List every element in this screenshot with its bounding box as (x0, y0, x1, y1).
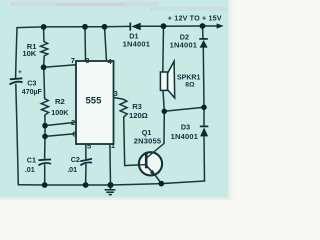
paper background (0, 0, 237, 204)
node R1 top (41, 24, 47, 30)
svg-text:120Ω: 120Ω (129, 111, 148, 120)
svg-text:.01: .01 (25, 165, 35, 174)
label SPKR1 value (177, 74, 200, 88)
label C1 value (25, 155, 36, 173)
svg-text:D3: D3 (181, 122, 190, 131)
svg-text:6: 6 (72, 130, 76, 139)
wire speaker bottom (163, 90, 164, 111)
wire pin 5 / C2 top (85, 144, 87, 159)
wire D2 anode down to node (202, 48, 205, 108)
node emitter junction (158, 181, 164, 187)
svg-text:R2: R2 (55, 97, 65, 106)
wire pin 7 (44, 65, 76, 68)
svg-text:C2: C2 (71, 155, 80, 164)
wire R3 bottom down (124, 117, 125, 166)
svg-text:3: 3 (114, 89, 118, 98)
wire D3 cathode up to node (203, 107, 205, 126)
node speaker bottom (162, 109, 168, 115)
svg-text:7: 7 (71, 56, 75, 65)
node speaker rail (161, 23, 167, 29)
svg-text:2: 2 (71, 118, 75, 127)
label C2 value (67, 155, 80, 174)
wire collector (163, 111, 165, 143)
label R2 value (51, 97, 69, 117)
node C1 bottom (42, 182, 48, 188)
supply arrow (217, 23, 224, 28)
svg-text:1N4001: 1N4001 (123, 40, 150, 49)
wire pin 2 (45, 122, 76, 125)
svg-text:100K: 100K (51, 108, 69, 117)
resistor R2 (41, 99, 48, 115)
node D3 top (201, 105, 207, 111)
label C3 value (22, 78, 43, 96)
wire left rail lower (16, 84, 18, 184)
transistor Q1 (139, 144, 164, 177)
wire pin 8 (84, 27, 87, 61)
capacitor C2 (80, 159, 92, 166)
label Q1 value (134, 128, 161, 145)
svg-text:10K: 10K (22, 49, 36, 58)
svg-text:C3: C3 (27, 78, 36, 87)
svg-text:8Ω: 8Ω (185, 82, 195, 89)
diode D1 (130, 23, 140, 31)
resistor R3 (120, 99, 127, 117)
node ground junction (108, 182, 114, 188)
wire R1 top (43, 27, 45, 42)
speaker SPKR1 (160, 61, 174, 98)
wire top rail right of D1 (141, 25, 218, 27)
label D3 value (171, 122, 198, 141)
wire pin 4 (105, 27, 107, 61)
wire left rail (16, 28, 17, 78)
wire C1 top (44, 136, 46, 159)
IC U1 555 timer (76, 61, 114, 144)
diode D2 (199, 39, 208, 48)
node R1 bottom junction (41, 64, 47, 70)
svg-text:1: 1 (111, 141, 115, 150)
capacitor C1 (39, 159, 52, 165)
wire R1 bottom to node (43, 56, 46, 67)
svg-text:2N3055: 2N3055 (134, 137, 161, 146)
wire D3 anode down to bottom rail (203, 137, 206, 181)
svg-text:8: 8 (85, 56, 89, 65)
wire top rail (17, 26, 130, 27)
svg-text:470µF: 470µF (22, 89, 43, 96)
node pin 8 rail (82, 24, 88, 30)
wire pin 3 to R3 (114, 98, 124, 100)
resistor R1 (41, 42, 48, 57)
wire pin 6 (45, 134, 76, 137)
svg-text:.01: .01 (67, 165, 77, 174)
diode D3 (200, 126, 209, 136)
svg-text:1N4001: 1N4001 (170, 41, 197, 50)
node C2 bottom (83, 182, 89, 188)
svg-text:+: + (18, 69, 22, 76)
wire node to pin6 node (44, 126, 46, 137)
wire speaker top (162, 26, 165, 72)
node pin 2 (42, 123, 48, 129)
label D2 value (170, 33, 197, 50)
wire pin 1 (109, 144, 112, 185)
svg-text:+ 12V TO + 15V: + 12V TO + 15V (168, 14, 222, 23)
label R1 value (22, 42, 37, 58)
wire bottom rail (18, 181, 204, 185)
node D2 rail (200, 23, 206, 29)
svg-text:R3: R3 (132, 102, 142, 111)
wire R2 bottom (44, 115, 46, 126)
capacitor C3 (electrolytic) (10, 69, 23, 85)
wire R2 top (43, 67, 46, 98)
svg-text:SPKR1: SPKR1 (177, 74, 200, 81)
wire D2 cathode up to rail (202, 26, 205, 39)
ground (105, 185, 116, 195)
label R3 value (129, 102, 148, 120)
svg-text:C1: C1 (27, 155, 36, 164)
svg-text:1N4001: 1N4001 (171, 132, 198, 141)
node pin 4 rail (102, 24, 108, 30)
wire C2 bottom (85, 164, 87, 185)
svg-text:555: 555 (86, 96, 103, 107)
svg-text:5: 5 (87, 142, 91, 151)
wire C1 bottom (44, 165, 46, 185)
node pin 6 (42, 134, 48, 140)
wire node to D3 top (164, 107, 204, 111)
label D1 value (123, 32, 150, 49)
wire emitter lead (156, 176, 162, 184)
wire base lead (125, 164, 140, 167)
